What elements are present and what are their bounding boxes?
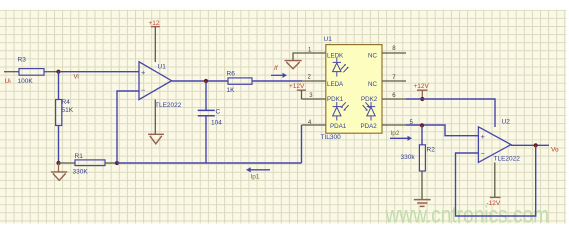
junction	[420, 97, 424, 101]
power +12 port	[149, 20, 160, 62]
node Vi junction	[56, 70, 60, 74]
pin 7 NC	[382, 80, 406, 82]
svg-text:Vo: Vo	[551, 146, 559, 153]
junction	[56, 161, 60, 165]
svg-text:+12V: +12V	[289, 83, 305, 90]
ground (U1 V-)	[148, 100, 164, 144]
resistor R2	[401, 125, 436, 199]
svg-text:PDK2: PDK2	[361, 96, 378, 103]
svg-text:330K: 330K	[73, 169, 89, 176]
junction	[420, 123, 424, 127]
svg-text:U2: U2	[502, 118, 511, 125]
wire (pin4 to bus)	[301, 125, 303, 163]
wire	[58, 72, 60, 100]
current arrow Ip2	[390, 130, 412, 141]
wire feedback	[456, 145, 536, 216]
ground (pin 1)	[285, 53, 303, 69]
resistor R1	[59, 153, 118, 175]
svg-text:TLE2022: TLE2022	[155, 102, 182, 109]
ground (earth, below R2)	[414, 200, 431, 207]
resistor R6	[227, 71, 303, 94]
sheet edge fades	[0, 0, 569, 10]
power -12V (U2 V-)	[487, 162, 501, 207]
svg-text:+12: +12	[149, 20, 160, 27]
pin 5 PDA2	[382, 124, 406, 126]
wire pin5 to U2 + input	[406, 125, 478, 136]
svg-text:R1: R1	[75, 153, 84, 160]
op-amp U1	[139, 62, 182, 109]
pin 8 NC	[382, 52, 406, 54]
wire +12V rail to U2 V+	[406, 99, 495, 127]
svg-text:100K: 100K	[18, 78, 34, 85]
wire	[4, 71, 19, 73]
svg-text:Ui: Ui	[5, 78, 11, 85]
wire	[172, 80, 228, 82]
wire	[59, 71, 140, 73]
svg-text:330k: 330k	[401, 154, 416, 161]
svg-text:NC: NC	[368, 81, 377, 88]
svg-text:LEDK: LEDK	[327, 52, 344, 59]
svg-text:104: 104	[211, 120, 222, 127]
photodiode PD2 symbol	[363, 102, 376, 121]
pin 1 LEDK	[302, 52, 326, 54]
power +12V (rail)	[414, 83, 430, 99]
svg-text:R2: R2	[427, 146, 436, 153]
wire output	[511, 144, 549, 146]
optocoupler U1 TIL300	[302, 36, 414, 141]
svg-text:51K: 51K	[62, 107, 74, 114]
svg-text:-12V: -12V	[487, 200, 501, 207]
svg-text:R6: R6	[227, 71, 236, 78]
svg-text:TIL300: TIL300	[321, 134, 342, 141]
pin 6 PDK2	[382, 98, 406, 100]
pin 3 PDK1	[302, 98, 326, 100]
wire	[58, 126, 60, 164]
svg-text:Ip2: Ip2	[391, 130, 400, 137]
wire	[117, 91, 139, 163]
svg-text:Ip1: Ip1	[251, 174, 260, 181]
svg-text:1K: 1K	[227, 87, 236, 94]
svg-text:NC: NC	[368, 52, 377, 59]
photodiode PD1 symbol	[333, 102, 349, 121]
current arrow Ip1	[246, 167, 270, 181]
pin 2 LEDA	[302, 80, 326, 82]
svg-text:R3: R3	[18, 57, 27, 64]
resistor R3	[18, 57, 59, 86]
svg-text:C: C	[216, 108, 221, 115]
current arrow If	[271, 65, 287, 78]
svg-text:PDK1: PDK1	[327, 96, 344, 103]
op-amp U2	[478, 118, 520, 162]
svg-text:+: +	[141, 68, 146, 77]
svg-text:+: +	[481, 132, 486, 141]
power +12V (pin 3)	[289, 83, 306, 99]
svg-text:Vi: Vi	[74, 75, 79, 81]
resistor R4	[56, 99, 74, 125]
wire bottom bus	[117, 162, 302, 164]
svg-text:TLE2022: TLE2022	[494, 156, 521, 163]
capacitor C	[198, 81, 223, 163]
LED symbol	[333, 58, 349, 77]
svg-text:LEDA: LEDA	[327, 81, 344, 88]
junction	[115, 161, 119, 165]
svg-text:+12V: +12V	[414, 83, 430, 90]
svg-text:PDA1: PDA1	[330, 123, 347, 130]
pin 4 PDA1	[302, 124, 326, 126]
svg-text:−: −	[481, 149, 486, 158]
svg-text:U1: U1	[324, 36, 333, 43]
svg-text:PDA2: PDA2	[361, 123, 378, 130]
svg-text:−: −	[141, 86, 146, 95]
ground	[51, 163, 68, 180]
junction	[534, 143, 538, 147]
junction	[204, 79, 208, 83]
svg-text:U1: U1	[158, 63, 167, 70]
svg-text:R4: R4	[62, 99, 71, 106]
